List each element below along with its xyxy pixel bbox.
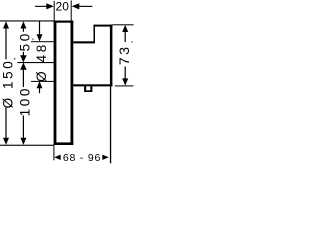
svg-text:Ø 48: Ø 48 xyxy=(34,42,49,82)
svg-text:20: 20 xyxy=(56,0,70,14)
svg-text:100: 100 xyxy=(18,86,33,116)
svg-text:68 - 96: 68 - 96 xyxy=(63,152,101,164)
svg-text:50: 50 xyxy=(18,31,33,51)
svg-text:73: 73 xyxy=(116,44,132,65)
svg-text:Ø 150: Ø 150 xyxy=(0,59,15,109)
